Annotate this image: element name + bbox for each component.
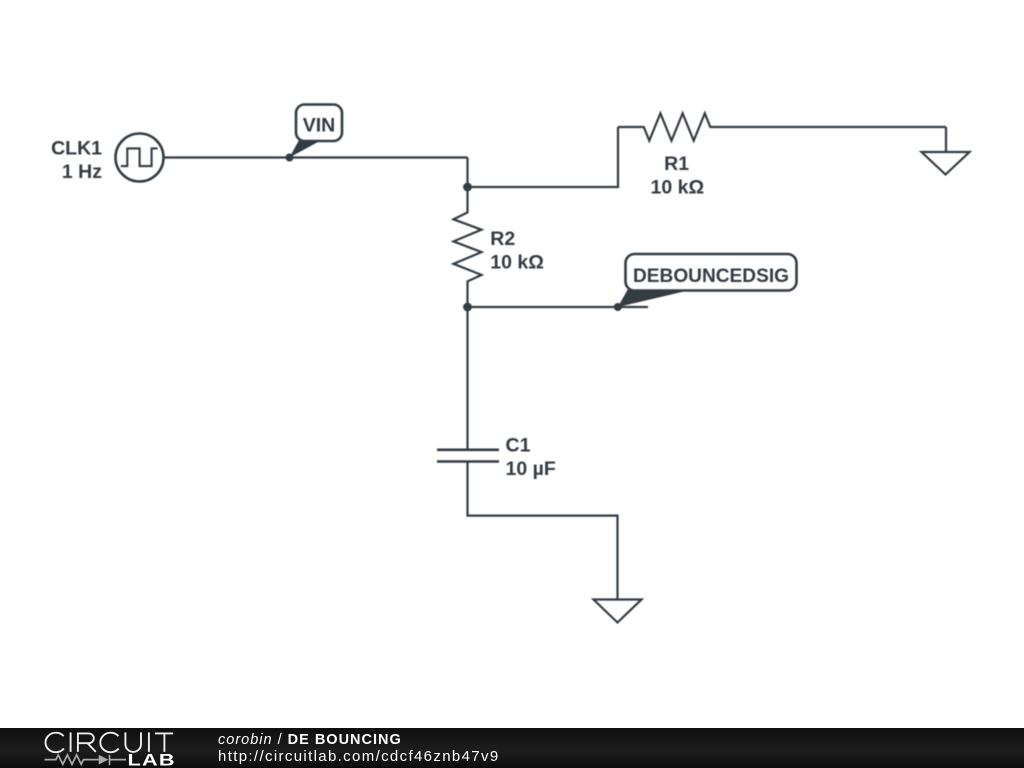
ground symbol top right	[922, 152, 970, 175]
clock source CLK1	[116, 134, 164, 182]
letter U	[125, 732, 141, 752]
footer brand bar	[0, 728, 1024, 768]
junction B dot	[463, 303, 472, 312]
wire VIN node down to junction A	[466, 158, 468, 188]
svg-text:VIN: VIN	[303, 115, 336, 137]
net flag VIN	[290, 105, 343, 158]
CircuitLab logo wordmark	[38, 726, 218, 768]
letter C	[100, 733, 118, 753]
svg-text:LAB: LAB	[128, 751, 176, 768]
svg-text:C1: C1	[506, 435, 531, 457]
net flag DEBOUNCEDSIG	[618, 254, 797, 307]
wire CLK1 to VIN node	[164, 156, 468, 158]
junction A dot	[463, 183, 472, 192]
node dot at DEBOUNCEDSIG tap	[614, 303, 622, 311]
svg-text:10 kΩ: 10 kΩ	[490, 251, 544, 273]
svg-text:10 kΩ: 10 kΩ	[651, 176, 705, 198]
svg-text:R2: R2	[490, 228, 515, 250]
capacitor C1	[437, 450, 499, 462]
svg-text:10 µF: 10 µF	[506, 458, 556, 480]
wire junction B to DEBOUNCEDSIG tap	[468, 306, 649, 308]
letter C	[46, 733, 64, 753]
wire junction B down to C1	[466, 307, 468, 450]
svg-text:R1: R1	[664, 153, 689, 175]
wire junction A to R1 branch	[468, 127, 619, 187]
logo resistor-diode glyph	[45, 755, 127, 766]
wire R1 to ground	[945, 127, 947, 152]
resistor R2	[454, 187, 482, 307]
letter T	[155, 733, 173, 752]
resistor R1	[618, 113, 946, 140]
node dot at VIN tap	[286, 154, 294, 162]
svg-text:DEBOUNCEDSIG: DEBOUNCEDSIG	[633, 265, 789, 287]
footer title line	[218, 732, 402, 748]
wire C1 to ground	[468, 462, 618, 600]
svg-text:1 Hz: 1 Hz	[62, 161, 102, 183]
letter I	[148, 732, 150, 752]
footer url line	[218, 748, 500, 765]
ground symbol bottom	[594, 600, 642, 623]
letter I	[70, 732, 72, 752]
letter R	[78, 733, 96, 752]
svg-text:CLK1: CLK1	[51, 138, 102, 160]
